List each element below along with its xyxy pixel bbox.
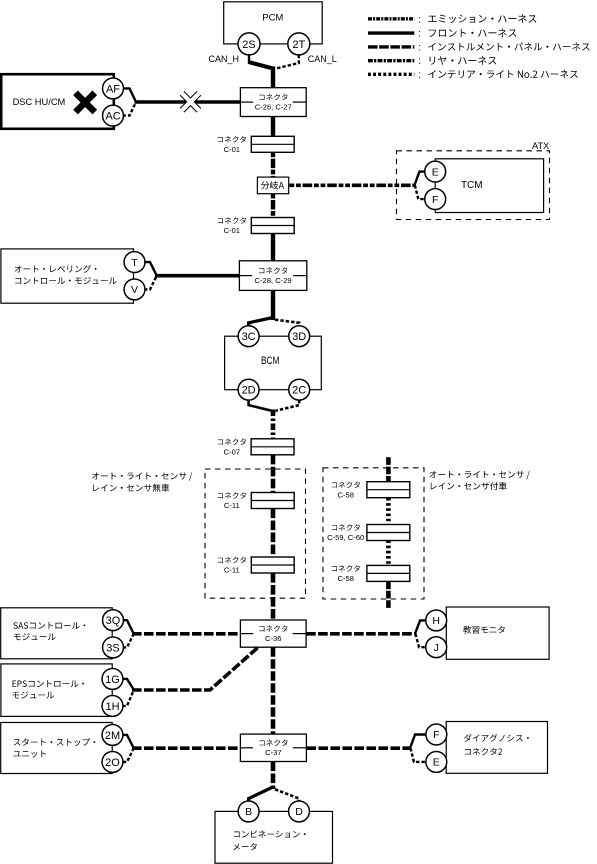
wire from pin 2O (dashed) [123,749,134,762]
module start-stop label line2 [13,750,45,757]
wire trunk C-28/C-29 to BCM [271,290,275,320]
wire from pin AF [123,88,136,101]
svg-text:CAN_L: CAN_L [308,54,337,64]
svg-text:2T: 2T [292,39,305,51]
svg-text:C-26, C-27: C-26, C-27 [255,103,292,112]
pin V [124,279,145,300]
module training monitor box [446,607,549,659]
wire trunk C-11 to C-36 (instrument panel) [271,573,276,621]
wire start-stop to C-37 (instrument panel) [132,746,240,750]
svg-text:C-01: C-01 [224,145,240,154]
wire auto-leveling to C-28/C-29 [155,274,239,278]
wire trunk C-01 to junction A (emission) [271,152,275,177]
wire DSC to connector C-26/C-27 [135,100,241,104]
legend emission harness swatch [368,17,414,20]
svg-text:3Q: 3Q [106,615,121,627]
legend rear harness swatch [368,59,414,62]
wire from pin T [144,262,157,275]
svg-text:C-37: C-37 [265,748,281,757]
legend interior light No.2 harness swatch [368,73,414,76]
connector C-07 symbol [251,439,294,455]
svg-text:3C: 3C [242,331,256,343]
pin 2C [289,379,310,400]
connector C-36 box [240,620,306,647]
legend instrument panel harness swatch [368,45,414,48]
module combination meter label line1 [234,830,306,838]
module PCM box [224,2,323,44]
wire to pin E (dashed) [411,748,427,762]
region with-sensor dashed box [323,468,424,599]
wire from pin 1G [122,679,133,690]
wire to pin J (dashed) [416,634,426,647]
wire CAN_H from pin 2S [249,55,271,69]
svg-text:3D: 3D [292,331,306,343]
wire EPS to C-36 (instrument panel) [132,648,258,690]
wire to pin F (dashed) [415,185,425,199]
module SAS box [1,608,113,659]
svg-text:CAN_H: CAN_H [208,54,239,64]
svg-text:ATX: ATX [532,141,550,152]
svg-text:V: V [131,284,138,296]
pin 2M [102,724,123,745]
legend front harness swatch [368,31,414,34]
svg-text:D: D [295,806,303,818]
wire to pin E [414,172,425,186]
svg-text:AC: AC [105,110,120,122]
pin 2O [102,751,123,772]
wire to pin 3C [249,318,273,327]
wire trunk PCM to connector C-26/C-27 [271,67,275,89]
module auto-leveling label line2 [15,277,116,284]
wire junction A to TCM (emission) [289,184,414,188]
svg-text:TCM: TCM [461,180,483,191]
svg-text:C-58: C-58 [337,490,353,499]
pin F diag [426,724,447,745]
wire to pin 3D (dashed) [275,320,299,327]
svg-text:C-36: C-36 [265,634,281,643]
pin 3S [103,637,124,658]
module combination meter label line2 [233,843,256,850]
module EPS label line1 [13,680,85,687]
pin F [425,189,446,210]
pin 3Q [103,610,124,631]
wire C-36 to training monitor (instrument panel) [306,632,416,636]
wire from pin 1H (dashed) [122,691,133,706]
connector C-11 lower label [218,557,246,564]
svg-text:C-11: C-11 [224,566,240,575]
svg-text:DSC HU/CM: DSC HU/CM [13,97,66,107]
svg-text:2C: 2C [292,385,306,397]
wire from pin AC (dashed) [123,103,136,116]
wire trunk C-11 to C-11 (instrument panel) [271,509,276,558]
module combination meter box [215,811,333,863]
module TCM box [435,159,543,213]
svg-text:C-59, C-60: C-59, C-60 [327,533,364,542]
svg-text:E: E [433,757,440,769]
connector C-58 lower symbol [367,565,410,581]
svg-text:C-01: C-01 [224,226,240,235]
svg-text::: : [418,29,421,40]
pin AC [103,105,124,126]
svg-text:C-58: C-58 [337,574,353,583]
svg-text:F: F [433,729,439,741]
module diagnosis label line2 [465,748,502,755]
wire to pin D (dashed) [275,789,299,801]
wire CAN_H diagonal [250,62,273,70]
connector C-11 lower symbol [251,557,294,573]
pin 1H [102,695,123,716]
wire trunk C-37 to meter junction (instrument panel) [271,762,276,790]
module diagnosis label line1 [464,734,529,742]
wire trunk BCM to C-07 (rear) [271,410,276,439]
svg-text:AF: AF [106,83,120,95]
pin AF [103,78,124,99]
module training monitor label [463,626,505,634]
svg-text:F: F [432,194,438,206]
connector C-26, C-27 box [240,88,306,117]
connector C-58 upper symbol [367,482,410,498]
wire to pin H [415,620,426,633]
pin 3D [289,326,310,347]
wire SAS to C-36 (instrument panel) [132,632,240,636]
connector C-01 lower label [218,217,246,224]
svg-text:BCM: BCM [261,355,280,367]
svg-text:2D: 2D [242,385,256,397]
svg-text:C-28, C-29: C-28, C-29 [255,276,292,285]
wire out of C-58 lower (instrument panel) [386,581,391,608]
connector C-01 upper label [218,136,246,143]
wire trunk junction A to C-01 lower (emission) [271,194,275,218]
svg-text:2S: 2S [242,39,255,51]
connector C-59, C-60 symbol [367,525,410,541]
pin 3C [238,326,259,347]
junction box 分岐A label [261,181,284,189]
svg-text:E: E [432,166,439,178]
pin 2S [238,33,260,55]
pin E diag [426,751,447,772]
svg-text::: : [418,42,421,53]
pin T [124,252,145,273]
svg-text:1G: 1G [105,674,120,686]
connector C-07 label [218,439,246,446]
connector C-59, C-60 label [332,524,360,531]
svg-text:2O: 2O [105,757,120,769]
pin J [426,637,447,658]
connector C-01 upper symbol [251,136,294,152]
pin D [289,801,310,822]
svg-text:2M: 2M [105,730,120,742]
svg-text:3S: 3S [106,642,119,654]
svg-text::: : [418,14,421,25]
svg-text:PCM: PCM [262,13,283,24]
wire trunk C-07 into sensor-less region (instrument panel) [271,455,276,493]
region ATX dashed box [397,151,550,220]
module start-stop unit box [1,723,113,774]
connector C-28, C-29 box [239,261,306,291]
module auto-leveling label line1 [15,265,97,273]
module auto-leveling box [1,249,134,303]
region with-sensor label line2 [431,482,507,490]
wire CAN_L from pin 2T (dashed) [275,55,299,69]
wire trunk C-36 to C-37 (instrument panel) [271,647,276,734]
pin 2D [238,379,259,400]
module EPS label line2 [13,691,55,698]
connector C-58 lower label [332,565,360,572]
connector C-01 lower symbol [251,218,294,234]
wire trunk C-01 lower to C-28/C-29 [271,234,275,262]
connector C-11 upper symbol [251,493,294,509]
region without-sensor label line1 [92,472,192,480]
module BCM box [225,336,322,390]
svg-text:T: T [131,257,138,269]
connector C-58 upper label [332,482,360,489]
region without-sensor dashed box [205,469,306,598]
svg-text:C-07: C-07 [224,447,240,456]
svg-text:H: H [432,615,440,627]
wire trunk C-26/C-27 to C-01 [271,117,275,138]
module SAS label line2 [14,633,56,640]
pin 1G [102,668,123,689]
wire from pin V (dashed) [144,276,157,289]
region with-sensor label line1 [430,471,530,479]
wire from pin 2C (dashed) [276,400,300,411]
crossing mark X on wire [182,93,199,110]
pin H [426,610,447,631]
wire to pin F [410,735,426,749]
pin 2T [288,33,310,55]
svg-text:J: J [434,642,439,654]
wire C-37 to diagnosis connector (instrument panel) [306,746,411,750]
module EPS box [1,664,112,717]
module start-stop label line1 [14,738,96,746]
wire into C-58 upper (instrument panel) [386,457,391,482]
wire C-58 to C-59/C-60 (interior light) [386,498,391,525]
junction box 分岐A [257,177,288,194]
wire from pin 3S (dashed) [123,634,134,647]
wire to pin B [249,787,273,801]
module diagnosis connector box [446,722,547,774]
pin B [238,801,259,822]
connector C-37 box [240,734,306,761]
svg-text::: : [418,56,421,67]
wire from pin 2M [123,735,134,748]
svg-text::: : [418,70,421,81]
connector C-11 upper label [218,492,246,499]
svg-text:C-11: C-11 [224,501,240,510]
wire from pin 3Q [123,620,134,633]
svg-text:B: B [245,806,252,818]
wire C-59/C-60 to C-58 lower (interior light) [386,540,391,565]
region without-sensor label line2 [93,484,169,492]
svg-text:1H: 1H [105,701,119,713]
wire from pin 2D [249,400,272,411]
pin E [425,161,446,182]
module DSC HU/CM box [1,74,114,129]
module SAS label line1 [13,622,85,629]
deleted mark X inside DSC [76,93,95,112]
